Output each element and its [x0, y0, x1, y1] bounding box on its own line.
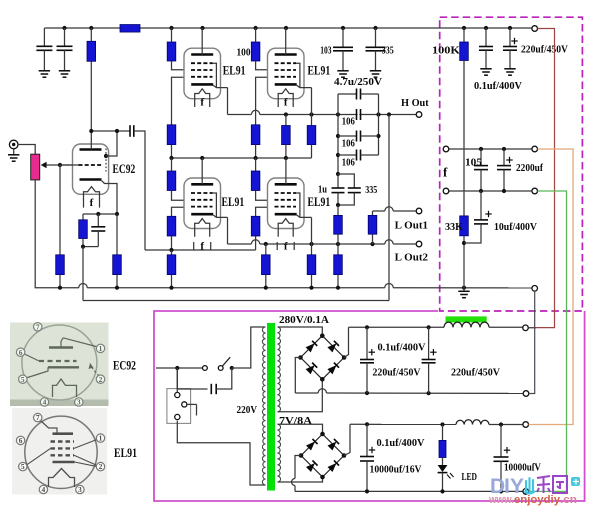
plus sign 220uf cap — [511, 40, 517, 42]
terminal L Out2 — [416, 241, 422, 247]
EL91 pin 4 — [39, 485, 47, 493]
transformer core (green) — [267, 323, 275, 491]
solid power-supply box — [154, 311, 585, 501]
volume potentiometer (pink) — [31, 154, 40, 180]
svg-text:f: f — [284, 241, 288, 253]
pot wiper arrow — [41, 162, 47, 168]
capacitor 2200uf — [503, 149, 505, 166]
divider resistor 338 lower — [337, 244, 339, 255]
ground under cap 103 — [337, 70, 348, 72]
capacitor 4.7u/250V — [338, 93, 357, 95]
plate lead lower EL91 #2 — [285, 158, 287, 184]
grid stopper resistor for lower EL91 #2 — [256, 207, 268, 216]
svg-text:10uf/400V: 10uf/400V — [494, 222, 537, 233]
wire: secondary 280V bottom to bridge (AC2) — [278, 379, 323, 412]
cathode resistor (265.8) — [265, 244, 267, 255]
EC92 socket internals — [49, 346, 73, 348]
EC92 plate load resistor — [90, 28, 92, 41]
EC92 second cathode resistor to ground rail — [116, 214, 118, 255]
wire: heater 0V rail — [295, 490, 523, 492]
terminal f+ right (orange) — [532, 146, 538, 152]
L Out1 series resistor (372.5) — [372, 211, 374, 215]
EL91 pin 6 — [16, 436, 24, 444]
svg-text:1: 1 — [99, 434, 103, 443]
plus sign 10000uf/16V — [369, 449, 375, 451]
capacitor 106 (a) on H rail — [356, 109, 358, 120]
svg-text:7: 7 — [36, 413, 40, 422]
wire: heater DC rail — [350, 423, 456, 425]
svg-text:5: 5 — [21, 375, 25, 384]
SRPP resistor B (311.5) — [311, 115, 313, 126]
svg-text:f: f — [284, 97, 288, 109]
svg-text:3: 3 — [77, 398, 81, 407]
svg-text:0.1uf/400V: 0.1uf/400V — [377, 438, 425, 449]
plus sign reservoir #2 — [430, 351, 436, 353]
EL91 socket diagram background — [12, 408, 107, 495]
ground under 220uf cap — [504, 68, 515, 70]
ground under left cap #1 — [39, 70, 50, 72]
svg-text:335: 335 — [365, 185, 377, 196]
wire: secondary 7V top to bridge 2 — [278, 424, 323, 434]
EL91 pin 1 — [96, 434, 104, 442]
grid resistor column for upper EL91 #2 — [256, 77, 268, 125]
terminal f+ left — [443, 146, 449, 152]
capacitor 0.1uf/400V (B+) — [485, 28, 487, 47]
svg-text:220uf/450V: 220uf/450V — [451, 367, 500, 378]
EC92 pin 1 — [96, 344, 104, 352]
terminal heater + out — [523, 422, 529, 428]
output capacitor 10000u — [500, 425, 502, 458]
pentode lower EL91 #1 — [184, 178, 221, 229]
EL91 pin 3 — [76, 485, 84, 493]
EL91 pin 7 — [34, 413, 42, 421]
svg-text:EL91: EL91 — [114, 446, 137, 460]
decoupling capacitor C (left #2) — [64, 28, 66, 46]
wire: jack to volume pot — [18, 145, 35, 155]
pentode upper EL91 #2 — [268, 48, 305, 98]
plus sign reservoir #1 — [369, 351, 375, 353]
orange wire: f+ to heater supply + — [529, 149, 574, 425]
svg-text:f: f — [200, 97, 204, 109]
SRPP resistor A (285.9) — [285, 115, 287, 126]
svg-text:enjoydiy: enjoydiy — [514, 494, 561, 506]
svg-text:EC92: EC92 — [113, 161, 136, 176]
svg-text:2: 2 — [99, 462, 103, 471]
terminal heater - out — [523, 489, 529, 495]
ground under input jack — [13, 149, 15, 155]
svg-text:.cn: .cn — [560, 494, 577, 506]
red wire: PSU B+ to amp B+ — [536, 29, 555, 328]
grid leak resistor lower #1 — [171, 250, 173, 255]
svg-text:4.7u/250V: 4.7u/250V — [334, 77, 382, 88]
cathode drop wire lower EL91 #2 — [311, 217, 313, 244]
svg-text:EL91: EL91 — [308, 63, 331, 78]
cathode resistor EC92 — [82, 214, 84, 220]
terminal f- left — [443, 188, 449, 194]
svg-text:EC92: EC92 — [113, 358, 136, 372]
wire: B+ rail (top) — [44, 27, 120, 29]
wire: SRPP midpoint row — [172, 157, 312, 159]
EC92 pin 2 — [96, 375, 104, 383]
svg-text:f: f — [443, 165, 448, 180]
ground under left cap #2 — [59, 70, 70, 72]
resistor 33K — [460, 216, 469, 236]
capacitor 220uf/450V (B+) — [509, 28, 511, 47]
svg-text:220uf/450V: 220uf/450V — [521, 45, 568, 56]
ground symbol on ground rail (in filter box) — [463, 288, 465, 291]
coupling capacitor (plate to drive line) — [91, 130, 130, 132]
svg-text:H Out: H Out — [401, 98, 429, 109]
svg-text:103: 103 — [320, 45, 331, 56]
svg-text:100K: 100K — [432, 45, 461, 56]
LED indicator — [442, 458, 444, 466]
primary winding — [262, 327, 265, 333]
svg-text:EL91: EL91 — [222, 194, 245, 209]
terminal B+ to PSU (red) — [532, 26, 538, 32]
grid stopper resistor for lower EL91 #1 — [172, 207, 185, 216]
svg-text:280V/0.1A: 280V/0.1A — [279, 315, 329, 326]
wire: inlet live to switch node — [176, 389, 178, 392]
green wire: f- to heater supply - — [529, 191, 567, 491]
EC92 socket circle — [22, 325, 97, 400]
EC92 pin 4 — [40, 398, 48, 406]
svg-text:105: 105 — [465, 158, 482, 169]
svg-text:LED: LED — [462, 472, 478, 483]
svg-text:7V/8A: 7V/8A — [279, 416, 312, 427]
grid leak resistor (input) — [59, 165, 61, 255]
terminal PSU 0V out — [523, 391, 529, 397]
wire: bridge DC+ to B+ rail — [344, 327, 348, 357]
svg-text:2200uf: 2200uf — [516, 163, 543, 174]
EC92 pin 7 — [34, 323, 42, 331]
bridge rectifier (HT) — [301, 336, 323, 358]
wire: drive line to lower grids — [145, 249, 256, 251]
secondary winding 280V — [278, 327, 281, 333]
EC92 internal dotted lead and node — [105, 149, 107, 172]
screen resistor for upper EL91 #2 — [255, 28, 257, 42]
wire: cap stack left rail — [337, 94, 339, 174]
terminal PSU B+ out — [523, 325, 529, 331]
reservoir capacitor #2 (220uf/450V) — [428, 327, 430, 359]
wire: switch to transformer primary top — [232, 327, 266, 368]
triode EC92 — [73, 144, 109, 194]
pentode upper EL91 #1 — [184, 48, 221, 98]
AC inlet socket — [167, 389, 191, 424]
svg-text:EL91: EL91 — [223, 63, 246, 78]
svg-text:f: f — [200, 241, 204, 253]
series resistor on B+ rail — [120, 25, 140, 33]
plus sign 10uf — [485, 213, 491, 215]
heater filter choke — [456, 420, 464, 424]
EL91 socket circle — [25, 416, 97, 488]
wire: cap stack right rail — [378, 94, 380, 155]
spark suppression capacitor across switch — [177, 368, 207, 389]
secondary winding 7V — [278, 424, 281, 430]
ground under 0.1uf cap — [480, 68, 491, 70]
svg-text:6: 6 — [19, 348, 23, 357]
capacitor 10uf/400V — [480, 191, 482, 220]
wire: heater row f- — [449, 190, 532, 192]
svg-text:33K: 33K — [445, 222, 464, 233]
plate lead upper EL91 #2 — [285, 28, 287, 55]
bleeder resistor 100K — [463, 28, 465, 42]
capacitor 103 to ground — [342, 28, 344, 47]
gray wire: amp ground to PSU 0V — [529, 291, 535, 393]
svg-text:5: 5 — [21, 462, 25, 471]
terminal H Out — [416, 112, 422, 118]
wire: secondary 7V bottom to bridge 2 — [278, 477, 323, 482]
svg-text:L Out1: L Out1 — [395, 220, 428, 231]
EC92 socket diagram background — [10, 323, 109, 400]
svg-text:100: 100 — [237, 47, 251, 58]
capacitor 335 to ground — [375, 28, 377, 47]
screen resistor for upper EL91 #1 — [171, 28, 173, 42]
svg-text:10000uſV: 10000uſV — [504, 462, 541, 473]
svg-text:0.1uf/400V: 0.1uf/400V — [474, 81, 522, 92]
wire: RC bottom / feedback takeoff — [83, 246, 98, 248]
grid resistor column for upper EL91 #1 — [172, 77, 185, 125]
heater filter capacitor 10000uf/16V — [366, 424, 368, 456]
wire: upper cathode rail to H Out — [227, 88, 229, 115]
svg-text:f: f — [90, 197, 94, 209]
wire: PSU B+ rail — [349, 326, 445, 328]
wire: grid of EC92 (from wiper) — [46, 164, 72, 166]
wire: output feedback rail (vertical 389) — [388, 115, 390, 301]
wire: PSU 0V rail — [295, 392, 318, 394]
ground under cap 335 — [370, 70, 381, 72]
EC92 cathode RC network — [83, 213, 117, 215]
screen resistor for lower EL91 #2 — [255, 158, 257, 171]
svg-text:6: 6 — [19, 436, 23, 445]
EC92 pin 5 — [19, 375, 27, 383]
svg-text:www.: www. — [488, 494, 514, 506]
EC92 pin 3 — [75, 398, 83, 406]
wire: bridge2 DC+ to heater rail — [344, 424, 350, 455]
cathode bypass capacitor EC92 — [97, 214, 99, 227]
svg-text:10000uf/16V: 10000uf/16V — [370, 464, 422, 475]
svg-text:335: 335 — [382, 45, 394, 56]
terminal f- right (green) — [532, 188, 538, 194]
cathode drop wire upper EL91 #2 — [311, 88, 313, 115]
svg-text:106: 106 — [342, 158, 355, 169]
wire: secondary 280V top to bridge — [278, 327, 323, 336]
svg-text:0.1uf/400V: 0.1uf/400V — [378, 342, 426, 353]
svg-text:2: 2 — [99, 375, 103, 384]
wire: heater row f+ — [449, 148, 532, 150]
svg-text:L Out2: L Out2 — [395, 252, 428, 263]
wire: pot bottom to ground rail — [34, 180, 36, 288]
input jack — [9, 140, 18, 149]
terminal L Out1 — [416, 208, 422, 214]
capacitor 106 (c) — [338, 154, 357, 156]
filter choke (green) — [446, 316, 487, 322]
svg-text:4: 4 — [42, 485, 46, 494]
screen resistor for lower EL91 #1 — [171, 158, 173, 171]
EC92 pin 6 — [16, 348, 24, 356]
LED dropper resistor — [442, 425, 444, 441]
wire: lower cathode rail to L Out2 — [227, 217, 229, 244]
svg-text:4: 4 — [43, 398, 47, 407]
svg-text:7: 7 — [36, 322, 40, 331]
svg-text:EL91: EL91 — [308, 194, 331, 209]
svg-text:1: 1 — [99, 344, 103, 353]
svg-text:220uf/450V: 220uf/450V — [373, 368, 421, 379]
wire: ground rail — [35, 287, 79, 289]
EL91 socket internals — [53, 432, 74, 435]
wire: inlet neutral to primary bottom — [177, 421, 265, 485]
reservoir capacitor #1 (220uf/450V) — [366, 327, 368, 359]
EL91 pin 2 — [96, 462, 104, 470]
EL91 pin 5 — [19, 462, 27, 470]
plus sign output cap — [504, 449, 510, 451]
terminal: ground to PSU — [532, 286, 538, 292]
capacitor 105 — [480, 149, 482, 166]
divider resistor 338 upper — [337, 205, 339, 215]
wire: feedback line (bottom) — [83, 300, 389, 302]
cathode resistor (311.5) — [311, 244, 313, 255]
parallel pair 1u + 335 — [338, 174, 354, 188]
decoupling capacitor C (left #1) — [43, 28, 45, 46]
bridge rectifier (heater) — [301, 434, 323, 456]
capacitor 106 (b) — [338, 135, 357, 137]
plate lead lower EL91 #1 — [201, 158, 203, 184]
svg-text:3: 3 — [78, 485, 82, 494]
wire: bridge DC- to rail — [295, 358, 300, 394]
svg-text:220V: 220V — [237, 405, 258, 416]
pentode lower EL91 #2 — [268, 178, 305, 229]
wire: L Out1 — [373, 210, 385, 212]
wire: bridge2 DC- down to 0V — [295, 456, 301, 479]
wire: coupling cap to lower-tube drive line — [134, 131, 145, 250]
power switch — [156, 367, 202, 369]
plus sign 2200uf — [506, 159, 512, 161]
svg-text:106: 106 — [342, 117, 355, 128]
plate lead upper EL91 #1 — [201, 28, 203, 55]
dashed PSU filter box — [440, 17, 583, 311]
svg-text:106: 106 — [342, 139, 355, 150]
